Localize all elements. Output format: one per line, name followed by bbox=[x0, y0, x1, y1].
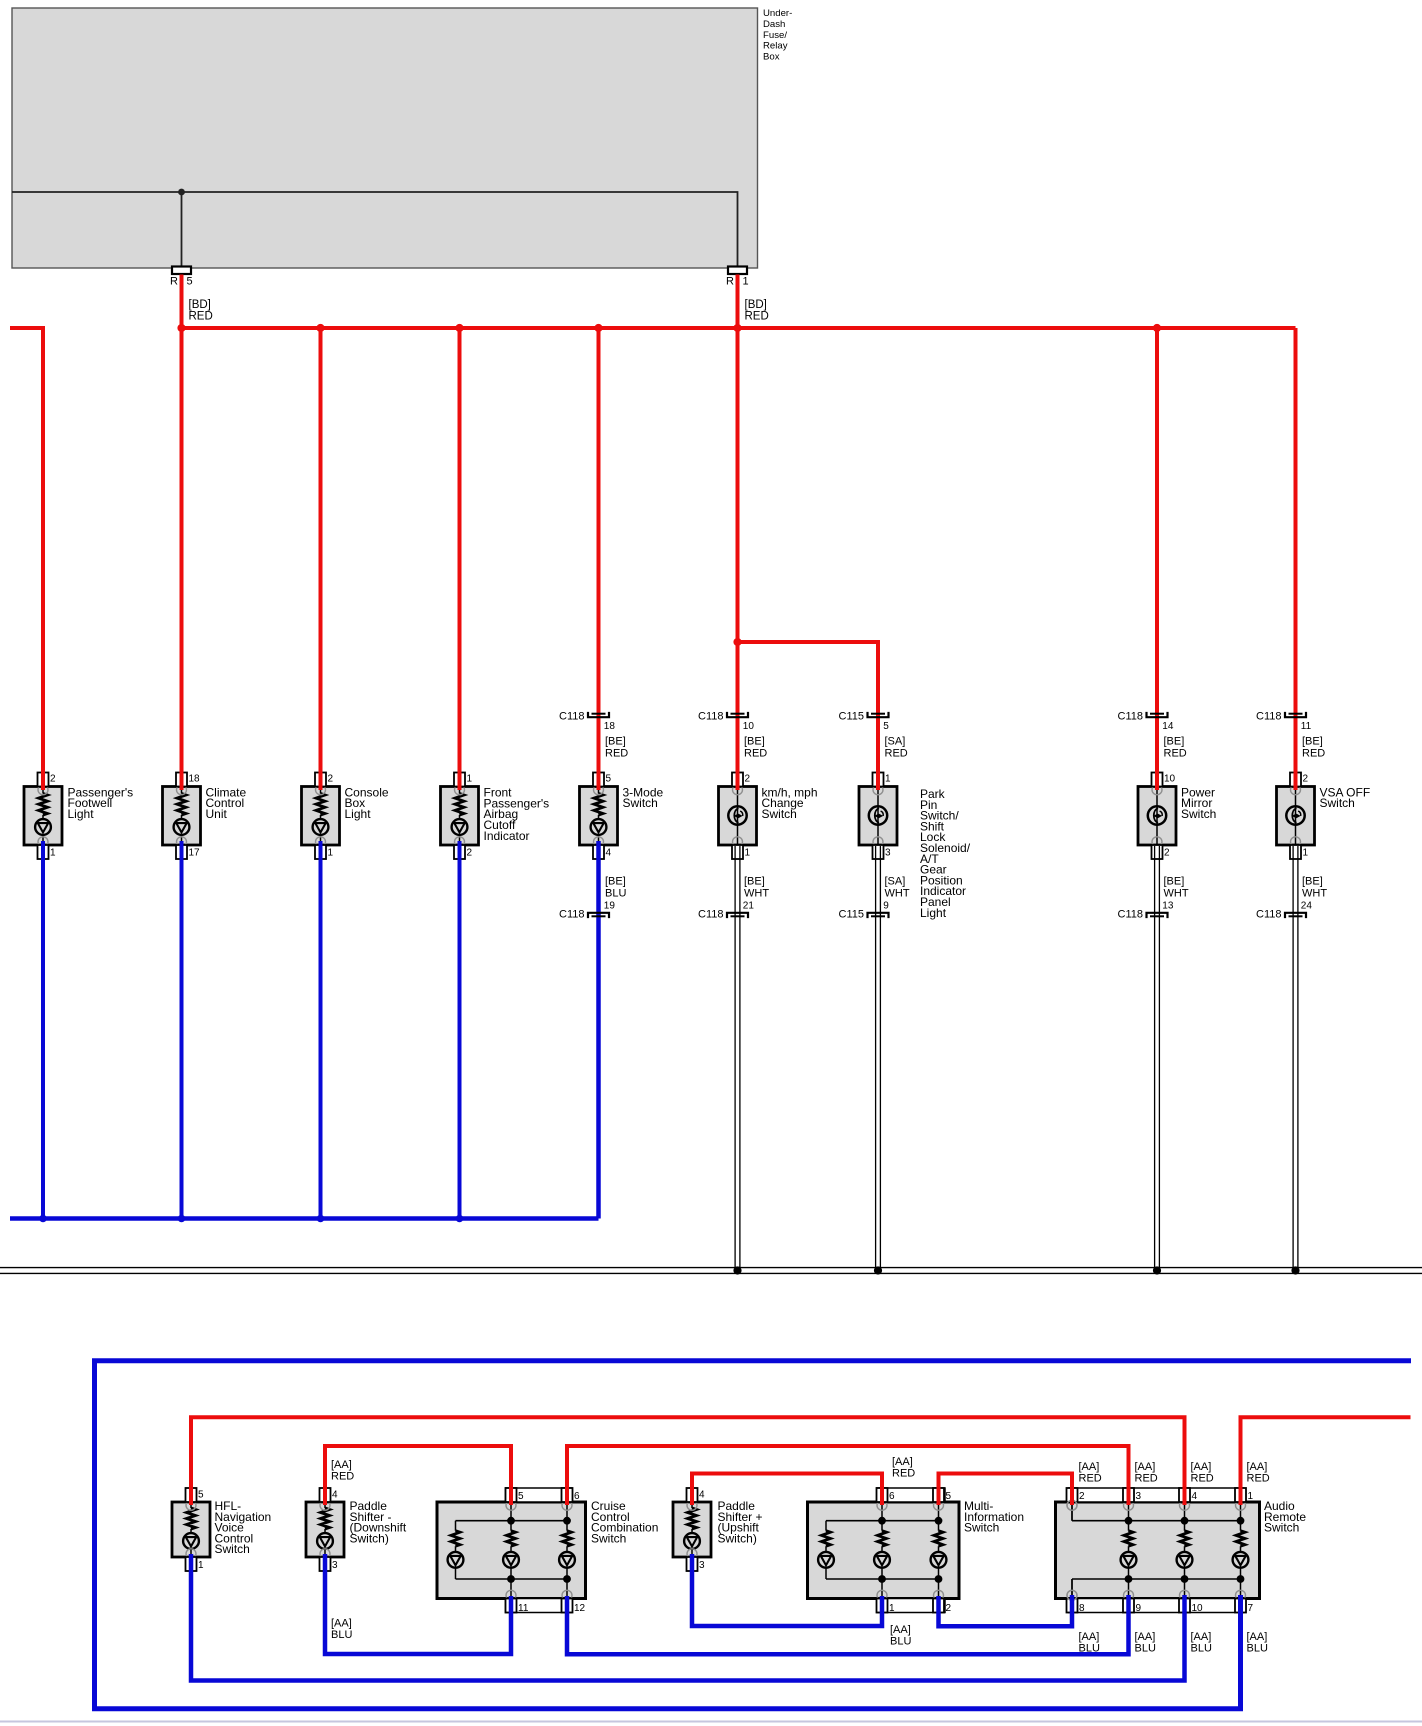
svg-text:R: R bbox=[726, 276, 734, 288]
svg-text:5: 5 bbox=[518, 1491, 524, 1502]
svg-text:5: 5 bbox=[198, 1490, 204, 1501]
svg-text:BLU: BLU bbox=[1079, 1643, 1100, 1655]
svg-text:5: 5 bbox=[606, 774, 612, 785]
svg-text:19: 19 bbox=[604, 901, 616, 912]
svg-text:Unit: Unit bbox=[206, 807, 228, 821]
svg-text:4: 4 bbox=[606, 848, 612, 859]
svg-text:3: 3 bbox=[1136, 1491, 1142, 1502]
svg-text:2: 2 bbox=[1303, 774, 1309, 785]
wire blue passenger footwell light to blue bus bbox=[41, 841, 45, 1219]
svg-text:RED: RED bbox=[331, 1471, 354, 1483]
svg-text:1: 1 bbox=[889, 1603, 895, 1614]
svg-text:4: 4 bbox=[332, 1490, 338, 1501]
svg-text:R: R bbox=[170, 276, 178, 288]
svg-text:11: 11 bbox=[518, 1603, 529, 1614]
svg-text:BLU: BLU bbox=[331, 1629, 352, 1641]
svg-text:BLU: BLU bbox=[1135, 1643, 1156, 1655]
svg-text:2: 2 bbox=[1164, 848, 1170, 859]
svg-text:BLU: BLU bbox=[890, 1636, 911, 1648]
svg-text:[AA]: [AA] bbox=[331, 1618, 352, 1630]
wire red bus drop to 3-mode switch bbox=[597, 328, 601, 790]
connector C118 pin 10 (top) bbox=[698, 711, 767, 760]
svg-text:[BD]: [BD] bbox=[745, 299, 767, 311]
svg-text:Switch): Switch) bbox=[350, 1531, 389, 1545]
svg-text:2: 2 bbox=[1079, 1491, 1085, 1502]
svg-text:18: 18 bbox=[189, 774, 201, 785]
wire label [AA] RED at audio remote bbox=[1135, 1461, 1158, 1485]
svg-text:WHT: WHT bbox=[1302, 888, 1327, 900]
wire blue paddle shifter - pin 3 to cruise switch pin 11 bbox=[325, 1554, 511, 1654]
audio remote switch pin2/pin8 internal elbow wires bbox=[1067, 1500, 1077, 1600]
under-dash fuse/relay box bbox=[12, 8, 792, 268]
svg-text:Under-: Under- bbox=[763, 8, 792, 19]
svg-text:[AA]: [AA] bbox=[1191, 1461, 1212, 1473]
blue bus wire to off-page left bbox=[10, 1216, 599, 1221]
svg-text:RED: RED bbox=[1302, 748, 1325, 760]
wire red paddle shifter + to multi-information pin 6 bbox=[692, 1474, 882, 1506]
svg-text:9: 9 bbox=[883, 901, 889, 912]
svg-text:[AA]: [AA] bbox=[890, 1624, 911, 1636]
connector C118 pin 11 (top) bbox=[1256, 711, 1325, 760]
svg-text:Light: Light bbox=[920, 906, 947, 920]
junction in fuse box bbox=[178, 189, 185, 196]
wire label [AA] BLU at audio remote bbox=[1191, 1631, 1212, 1655]
wire red HFL switch to audio remote pin 4 bbox=[191, 1417, 1185, 1505]
svg-text:BLU: BLU bbox=[1191, 1643, 1212, 1655]
svg-text:RED: RED bbox=[885, 748, 908, 760]
junction dots on blue bus bbox=[39, 1215, 463, 1223]
svg-text:[SA]: [SA] bbox=[885, 876, 906, 888]
component km/h mph change switch bbox=[719, 773, 818, 860]
svg-text:5: 5 bbox=[187, 276, 193, 288]
wire blue audio remote pin 7 loop around section to off-page right bbox=[95, 1361, 1412, 1709]
svg-text:5: 5 bbox=[883, 721, 889, 732]
connector C118 pin 13 (bottom) bbox=[1118, 876, 1189, 921]
wire blue cruise switch pin 12 to audio remote pin 9 bbox=[567, 1595, 1129, 1654]
wire blue airbag cutoff indicator to blue bus bbox=[458, 841, 462, 1219]
wire red multi-information pin 5 to audio remote pin 2 bbox=[939, 1474, 1073, 1506]
connector R 5 bbox=[170, 267, 193, 288]
svg-text:2: 2 bbox=[50, 774, 56, 785]
svg-text:4: 4 bbox=[1192, 1491, 1198, 1502]
svg-text:Switch: Switch bbox=[623, 796, 658, 810]
connector C115 pin 5 (top) bbox=[839, 711, 908, 760]
svg-text:RED: RED bbox=[745, 311, 769, 323]
svg-text:RED: RED bbox=[605, 748, 628, 760]
component 3-mode switch bbox=[580, 773, 664, 860]
svg-text:1: 1 bbox=[1303, 848, 1309, 859]
svg-text:7: 7 bbox=[1248, 1603, 1254, 1614]
wire red paddle shifter - to cruise switch pin 5 bbox=[325, 1446, 511, 1505]
component console box light bbox=[302, 773, 389, 860]
svg-text:[BE]: [BE] bbox=[1164, 876, 1185, 888]
svg-text:Light: Light bbox=[68, 807, 95, 821]
svg-text:[AA]: [AA] bbox=[1079, 1461, 1100, 1473]
connector C118 pin 14 (top) bbox=[1118, 711, 1187, 760]
svg-text:8: 8 bbox=[1079, 1603, 1085, 1614]
svg-text:C118: C118 bbox=[698, 909, 723, 921]
svg-text:[AA]: [AA] bbox=[1135, 1631, 1156, 1643]
wire blue climate control unit to blue bus bbox=[180, 841, 184, 1219]
wire red bus drop to power mirror switch bbox=[1155, 328, 1159, 790]
wire red bus corner drop to VSA OFF switch bbox=[1294, 328, 1298, 790]
component front passenger's airbag cutoff indicator bbox=[441, 773, 550, 860]
svg-text:C118: C118 bbox=[1118, 909, 1143, 921]
svg-text:1: 1 bbox=[1248, 1491, 1254, 1502]
connector C115 pin 9 (bottom) bbox=[839, 876, 910, 921]
svg-text:3: 3 bbox=[332, 1560, 338, 1571]
junction dots on white bus bbox=[733, 1266, 1299, 1274]
svg-text:[BE]: [BE] bbox=[744, 876, 765, 888]
svg-text:[AA]: [AA] bbox=[1135, 1461, 1156, 1473]
wire label [AA] RED at multi-information pin 6 bbox=[892, 1456, 915, 1480]
svg-text:[AA]: [AA] bbox=[1247, 1631, 1268, 1643]
svg-text:[AA]: [AA] bbox=[1247, 1461, 1268, 1473]
component HFL-navigation voice control switch bbox=[172, 1488, 271, 1571]
svg-text:1: 1 bbox=[745, 848, 751, 859]
svg-text:Switch: Switch bbox=[1320, 796, 1355, 810]
svg-text:11: 11 bbox=[1301, 721, 1312, 732]
svg-text:9: 9 bbox=[1136, 1603, 1142, 1614]
svg-text:1: 1 bbox=[467, 774, 473, 785]
svg-text:RED: RED bbox=[1079, 1473, 1102, 1485]
wire label [AA] BLU at paddle shifter - bbox=[331, 1618, 352, 1642]
svg-text:[AA]: [AA] bbox=[1191, 1631, 1212, 1643]
svg-text:2: 2 bbox=[467, 848, 473, 859]
svg-text:[AA]: [AA] bbox=[892, 1456, 913, 1468]
wire blue paddle shifter + pin 3 to multi-information pin 1 bbox=[692, 1554, 882, 1626]
svg-text:Switch: Switch bbox=[215, 1542, 250, 1556]
svg-text:10: 10 bbox=[1192, 1603, 1204, 1614]
svg-text:RED: RED bbox=[1191, 1473, 1214, 1485]
svg-text:[AA]: [AA] bbox=[331, 1459, 352, 1471]
svg-text:Fuse/: Fuse/ bbox=[763, 30, 787, 41]
svg-text:[BE]: [BE] bbox=[744, 736, 765, 748]
svg-text:Switch: Switch bbox=[591, 1531, 626, 1545]
svg-text:1: 1 bbox=[328, 848, 334, 859]
svg-text:Switch: Switch bbox=[964, 1521, 999, 1535]
component multi-information switch bbox=[808, 1488, 1025, 1614]
svg-text:10: 10 bbox=[1164, 774, 1176, 785]
connector C118 pin 18 (top) bbox=[559, 711, 628, 760]
svg-text:Light: Light bbox=[345, 807, 372, 821]
svg-text:Indicator: Indicator bbox=[484, 829, 530, 843]
connector C118 pin 21 (bottom) bbox=[698, 876, 769, 921]
component paddle shifter + (upshift switch) bbox=[673, 1488, 763, 1571]
svg-text:RED: RED bbox=[744, 748, 767, 760]
svg-text:RED: RED bbox=[1247, 1473, 1270, 1485]
svg-text:6: 6 bbox=[889, 1491, 895, 1502]
wire red R5 to bus to climate control unit bbox=[180, 275, 184, 791]
svg-text:C115: C115 bbox=[839, 711, 864, 723]
svg-text:21: 21 bbox=[743, 901, 755, 912]
svg-text:3: 3 bbox=[699, 1560, 705, 1571]
svg-text:12: 12 bbox=[574, 1603, 586, 1614]
svg-text:WHT: WHT bbox=[1164, 888, 1189, 900]
svg-text:WHT: WHT bbox=[744, 888, 769, 900]
svg-text:Switch: Switch bbox=[1264, 1521, 1299, 1535]
wire label [AA] RED at paddle shifter - bbox=[331, 1459, 354, 1483]
junction dots on red bus bbox=[177, 324, 1161, 646]
wire red audio remote pin 1 to off-page right bbox=[1241, 1417, 1411, 1505]
svg-text:Relay: Relay bbox=[763, 41, 788, 52]
svg-text:WHT: WHT bbox=[885, 888, 910, 900]
wire label [AA] BLU at multi-information pin 1 bbox=[890, 1624, 911, 1648]
connector C118 pin 19 (bottom) bbox=[559, 876, 626, 921]
svg-text:C118: C118 bbox=[698, 711, 723, 723]
svg-text:17: 17 bbox=[189, 848, 201, 859]
wire red branch to park pin switch bbox=[738, 642, 879, 790]
svg-text:5: 5 bbox=[946, 1491, 952, 1502]
svg-text:[BE]: [BE] bbox=[605, 736, 626, 748]
wire label [AA] BLU at audio remote bbox=[1079, 1631, 1100, 1655]
wire red cruise switch pin 6 to audio remote pin 3 bbox=[567, 1446, 1129, 1505]
svg-text:C118: C118 bbox=[1118, 711, 1143, 723]
svg-text:BLU: BLU bbox=[605, 888, 626, 900]
wire blue multi-information pin 2 to audio remote pin 8 bbox=[939, 1595, 1073, 1626]
svg-text:1: 1 bbox=[743, 276, 749, 288]
svg-text:RED: RED bbox=[189, 311, 213, 323]
svg-text:C115: C115 bbox=[839, 909, 864, 921]
svg-text:[BE]: [BE] bbox=[1302, 876, 1323, 888]
svg-text:[AA]: [AA] bbox=[1079, 1631, 1100, 1643]
svg-text:13: 13 bbox=[1162, 901, 1174, 912]
svg-text:[SA]: [SA] bbox=[885, 736, 906, 748]
connector R 1 bbox=[726, 267, 749, 288]
wire blue console box light to blue bus bbox=[319, 841, 323, 1219]
fuse box internal bus wire bbox=[12, 192, 738, 266]
component VSA OFF switch bbox=[1277, 773, 1371, 860]
component climate control unit U1 bbox=[163, 773, 247, 860]
svg-text:RED: RED bbox=[1135, 1473, 1158, 1485]
svg-text:[BE]: [BE] bbox=[605, 876, 626, 888]
svg-text:[BD]: [BD] bbox=[189, 299, 211, 311]
wire label [AA] BLU at audio remote bbox=[1247, 1631, 1268, 1655]
svg-text:2: 2 bbox=[745, 774, 751, 785]
component audio remote switch bbox=[1056, 1488, 1307, 1614]
svg-text:2: 2 bbox=[946, 1603, 952, 1614]
white wire VSA OFF switch to ground bus bbox=[1293, 846, 1298, 1271]
wire label [AA] RED at audio remote bbox=[1079, 1461, 1102, 1485]
wire red bus drop to airbag cutoff indicator bbox=[458, 328, 462, 790]
white ground bus wire full width bbox=[0, 1268, 1422, 1274]
svg-text:Dash: Dash bbox=[763, 19, 785, 30]
wire red feed left (off-page) to passenger footwell light bbox=[10, 328, 43, 790]
component power mirror switch bbox=[1138, 773, 1216, 860]
svg-text:1: 1 bbox=[50, 848, 56, 859]
svg-text:3: 3 bbox=[885, 848, 891, 859]
svg-text:18: 18 bbox=[604, 721, 616, 732]
wire blue HFL switch pin 1 to audio remote pin 10 bbox=[191, 1554, 1185, 1681]
svg-text:RED: RED bbox=[1164, 748, 1187, 760]
component cruise control combination switch bbox=[437, 1488, 658, 1614]
wire red bus drop to console box light bbox=[319, 328, 323, 790]
svg-text:Switch: Switch bbox=[1181, 807, 1216, 821]
svg-text:C118: C118 bbox=[1256, 711, 1281, 723]
wire blue 3-mode switch down to blue bus corner bbox=[596, 841, 601, 1219]
svg-text:C118: C118 bbox=[559, 711, 584, 723]
wire red R1 through bus to km/h switch bbox=[736, 275, 740, 791]
component park pin switch / shift lock solenoid / AT gear position indicator panel light bbox=[859, 773, 971, 920]
svg-text:6: 6 bbox=[574, 1491, 580, 1502]
svg-text:C118: C118 bbox=[1256, 909, 1281, 921]
wire label [AA] RED at audio remote bbox=[1247, 1461, 1270, 1485]
svg-text:Switch: Switch bbox=[762, 807, 797, 821]
svg-text:RED: RED bbox=[892, 1468, 915, 1480]
svg-text:Box: Box bbox=[763, 52, 780, 63]
svg-text:1: 1 bbox=[198, 1560, 204, 1571]
wire label [BD] RED left bbox=[189, 299, 213, 323]
svg-text:1: 1 bbox=[885, 774, 891, 785]
svg-text:BLU: BLU bbox=[1247, 1643, 1268, 1655]
component paddle shifter - (downshift switch) bbox=[306, 1488, 407, 1571]
connector C118 pin 24 (bottom) bbox=[1256, 876, 1327, 921]
svg-text:14: 14 bbox=[1162, 721, 1174, 732]
white wire park pin switch to ground bus bbox=[876, 846, 881, 1271]
wire label [BD] RED right bbox=[745, 299, 769, 323]
svg-text:Switch): Switch) bbox=[718, 1531, 757, 1545]
wire label [AA] BLU at audio remote bbox=[1135, 1631, 1156, 1655]
svg-text:C118: C118 bbox=[559, 909, 584, 921]
svg-text:10: 10 bbox=[743, 721, 755, 732]
svg-text:24: 24 bbox=[1301, 901, 1313, 912]
white wire power mirror switch to ground bus bbox=[1155, 846, 1160, 1271]
svg-text:4: 4 bbox=[699, 1490, 705, 1501]
white wire km/h switch to ground bus bbox=[735, 846, 740, 1271]
svg-text:[BE]: [BE] bbox=[1302, 736, 1323, 748]
page margin line bottom bbox=[0, 1721, 1422, 1723]
wire label [AA] RED at audio remote bbox=[1191, 1461, 1214, 1485]
svg-text:[BE]: [BE] bbox=[1164, 736, 1185, 748]
red bus wire bbox=[182, 326, 1296, 330]
svg-text:2: 2 bbox=[328, 774, 334, 785]
component passenger's footwell light bbox=[24, 773, 133, 860]
